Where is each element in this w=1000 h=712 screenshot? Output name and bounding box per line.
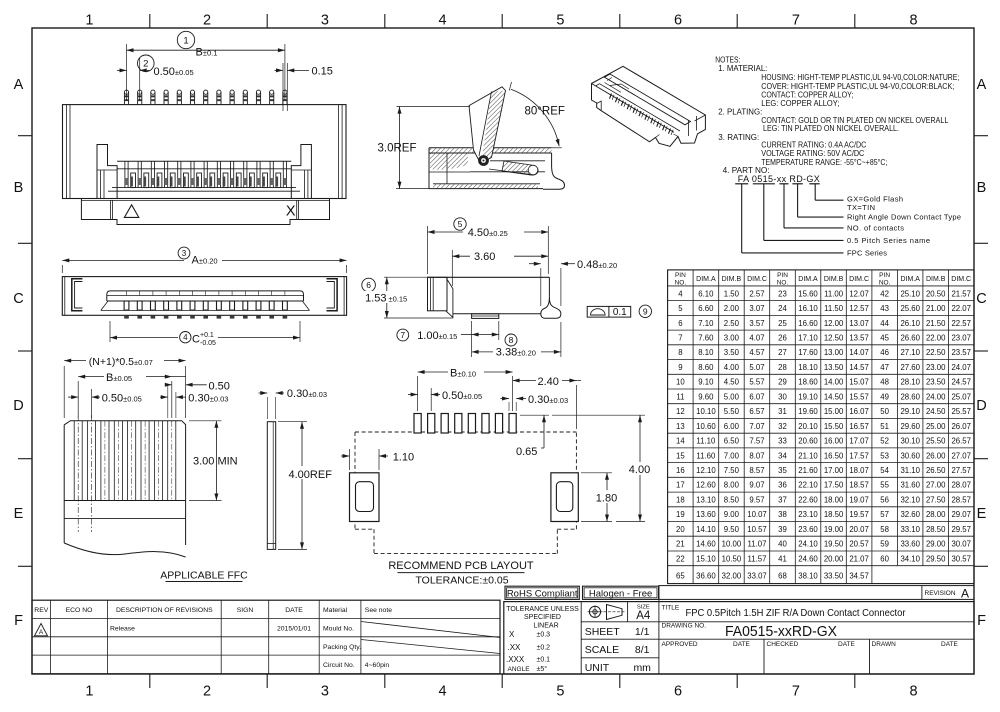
svg-text:3.00 MIN: 3.00 MIN (193, 455, 238, 467)
Halogen-Free box (583, 586, 659, 600)
svg-text:21.10: 21.10 (798, 451, 818, 460)
RECOMMEND PCB LAYOUT caption (388, 560, 534, 586)
svg-text:7: 7 (400, 330, 405, 340)
svg-text:1/1: 1/1 (635, 626, 650, 638)
front view contact comb (108, 161, 300, 191)
PCB dimension 0.50±0.05 pad pitch (408, 388, 482, 411)
svg-text:6.07: 6.07 (749, 392, 764, 401)
svg-text:0.50±0.05: 0.50±0.05 (442, 390, 482, 402)
svg-text:6: 6 (674, 684, 682, 700)
svg-text:28.60: 28.60 (900, 392, 920, 401)
svg-text:34.57: 34.57 (849, 571, 869, 580)
notes text block (715, 56, 959, 175)
svg-text:36.60: 36.60 (696, 571, 716, 580)
svg-text:23.57: 23.57 (951, 348, 971, 357)
svg-text:13.50: 13.50 (824, 363, 844, 372)
svg-text:19.60: 19.60 (798, 407, 818, 416)
svg-text:0.30±0.03: 0.30±0.03 (287, 388, 327, 400)
80 degree reference arc and label (509, 82, 565, 148)
svg-text:25.10: 25.10 (900, 289, 920, 298)
svg-text:0.50±0.05: 0.50±0.05 (102, 392, 142, 404)
front view bottom tray cover (81, 199, 329, 225)
svg-text:22.07: 22.07 (951, 304, 971, 313)
svg-text:15.50: 15.50 (824, 422, 844, 431)
svg-text:9.60: 9.60 (698, 392, 714, 401)
svg-text:68: 68 (778, 571, 787, 580)
svg-text:3.57: 3.57 (749, 319, 764, 328)
side profile view solder leg foot (541, 297, 561, 319)
svg-text:33.60: 33.60 (900, 540, 920, 549)
svg-text:1: 1 (85, 13, 93, 29)
FFC front view outline (64, 421, 185, 557)
svg-text:REVISION: REVISION (925, 590, 956, 597)
svg-text:4: 4 (439, 684, 447, 700)
svg-text:3.00: 3.00 (724, 334, 740, 343)
svg-text:46: 46 (880, 348, 889, 357)
front view polarity triangle mark (124, 205, 138, 218)
svg-text:8: 8 (910, 13, 918, 29)
svg-text:20.07: 20.07 (849, 525, 869, 534)
svg-text:22.10: 22.10 (798, 481, 818, 490)
svg-text:53: 53 (880, 451, 889, 460)
svg-text:27: 27 (778, 348, 787, 357)
svg-text:Release: Release (110, 626, 135, 633)
svg-text:2.40: 2.40 (538, 376, 559, 388)
svg-text:2: 2 (143, 59, 148, 70)
svg-text:12.57: 12.57 (849, 304, 869, 313)
svg-text:23.07: 23.07 (951, 334, 971, 343)
tolerance notes text (506, 606, 579, 673)
svg-text:±0.2: ±0.2 (537, 645, 551, 652)
APPLICABLE FFC caption (160, 569, 248, 581)
svg-text:20.00: 20.00 (824, 554, 844, 563)
svg-text:17.60: 17.60 (798, 348, 818, 357)
svg-text:9.10: 9.10 (698, 378, 714, 387)
svg-text:58: 58 (880, 525, 889, 534)
svg-text:9.50: 9.50 (724, 525, 740, 534)
svg-text:F: F (14, 613, 23, 629)
svg-text:B±0.1: B±0.1 (196, 47, 218, 59)
PCB dimension 1.10 anchor pad width (341, 449, 414, 470)
svg-text:3.07: 3.07 (749, 304, 764, 313)
svg-text:16.07: 16.07 (849, 407, 869, 416)
svg-text:Circuit No.: Circuit No. (323, 662, 355, 669)
svg-text:C: C (976, 291, 986, 307)
svg-text:GX=Gold Flash: GX=Gold Flash (847, 194, 903, 203)
side profile view body (428, 277, 550, 317)
svg-text:43: 43 (880, 304, 889, 313)
open lever side view body (429, 148, 552, 189)
svg-text:20.50: 20.50 (926, 289, 946, 298)
svg-text:26.60: 26.60 (900, 334, 920, 343)
svg-text:7: 7 (792, 684, 800, 700)
svg-text:±0.15: ±0.15 (389, 295, 408, 304)
svg-text:TOLERANCE UNLESS: TOLERANCE UNLESS (506, 606, 579, 613)
svg-text:24.50: 24.50 (926, 407, 946, 416)
svg-text:3: 3 (321, 13, 329, 29)
top view contact slots row (101, 301, 310, 310)
svg-text:0.1: 0.1 (613, 307, 627, 318)
svg-text:9.57: 9.57 (749, 496, 764, 505)
svg-text:45: 45 (880, 334, 889, 343)
svg-text:21.60: 21.60 (798, 466, 818, 475)
svg-text:HOUSING: HIGHT-TEMP PLASTIC,UL: HOUSING: HIGHT-TEMP PLASTIC,UL 94-V0,COL… (761, 73, 959, 82)
dimension 4.50±0.25 with balloon 5 (428, 218, 549, 274)
svg-text:DIM.C: DIM.C (951, 276, 971, 283)
svg-text:APPROVED: APPROVED (662, 641, 698, 648)
svg-text:29: 29 (778, 378, 787, 387)
svg-text:Mould No.: Mould No. (323, 626, 354, 633)
svg-text:12.00: 12.00 (824, 319, 844, 328)
svg-text:13.57: 13.57 (849, 334, 869, 343)
svg-text:16.00: 16.00 (824, 437, 844, 446)
svg-text:13.07: 13.07 (849, 319, 869, 328)
svg-text:RECOMMEND PCB LAYOUT: RECOMMEND PCB LAYOUT (388, 560, 534, 572)
svg-text:24.60: 24.60 (798, 554, 818, 563)
svg-text:8/1: 8/1 (635, 644, 650, 656)
svg-text:8.07: 8.07 (749, 451, 764, 460)
svg-text:16: 16 (676, 466, 685, 475)
svg-text:23.10: 23.10 (798, 510, 818, 519)
svg-text:17.57: 17.57 (849, 451, 869, 460)
svg-text:1: 1 (85, 684, 93, 700)
svg-text:11: 11 (676, 392, 684, 401)
svg-text:14.60: 14.60 (696, 540, 716, 549)
svg-text:5.50: 5.50 (724, 407, 740, 416)
svg-text:18.10: 18.10 (798, 363, 818, 372)
RoHS Compliant box (505, 586, 579, 600)
svg-text:19.07: 19.07 (849, 496, 869, 505)
PCB layout right anchor pad (551, 473, 578, 522)
svg-text:48: 48 (880, 378, 889, 387)
FFC dimension B±0.05 (78, 370, 185, 418)
svg-text:9: 9 (678, 363, 682, 372)
svg-text:FA0515-xxRD-GX: FA0515-xxRD-GX (725, 623, 837, 640)
svg-text:4: 4 (678, 289, 683, 298)
svg-text:34: 34 (778, 451, 787, 460)
svg-text:See note: See note (365, 607, 392, 614)
FFC conductors stripes (74, 415, 176, 532)
svg-text:X: X (509, 630, 515, 639)
svg-text:2.57: 2.57 (749, 289, 764, 298)
svg-text:PIN: PIN (675, 272, 686, 279)
svg-text:32: 32 (778, 422, 787, 431)
front view right end bracket (291, 145, 311, 199)
svg-text:13.10: 13.10 (696, 496, 716, 505)
svg-text:27.00: 27.00 (926, 481, 946, 490)
svg-text:3.0REF: 3.0REF (378, 142, 417, 154)
svg-text:16.57: 16.57 (849, 422, 869, 431)
dimension 0.50±0.05 pin pitch with balloon 2 (117, 55, 194, 100)
svg-text:UNIT: UNIT (585, 662, 610, 674)
front view housing body (63, 105, 347, 199)
svg-text:23.60: 23.60 (798, 525, 818, 534)
svg-text:3.50: 3.50 (724, 348, 740, 357)
svg-text:49: 49 (880, 392, 889, 401)
svg-text:7.57: 7.57 (749, 437, 764, 446)
FFC dimension 3.00 MIN (189, 421, 238, 501)
svg-text:Halogen - Free: Halogen - Free (589, 589, 652, 600)
svg-text:36: 36 (778, 481, 787, 490)
svg-text:0.5 Pitch Series name: 0.5 Pitch Series name (847, 236, 930, 245)
svg-text:3.38±0.20: 3.38±0.20 (496, 346, 536, 358)
third angle projection symbol (588, 605, 625, 620)
svg-text:11.07: 11.07 (748, 540, 767, 549)
svg-text:28.07: 28.07 (951, 481, 971, 490)
svg-text:LEG: TIN PLATED ON NICKEL OVER: LEG: TIN PLATED ON NICKEL OVERALL. (763, 124, 899, 133)
svg-text:21.57: 21.57 (951, 289, 971, 298)
FFC side dimension 4.00REF (278, 422, 332, 550)
svg-text:+0.1: +0.1 (200, 332, 214, 339)
svg-text:B±0.10: B±0.10 (450, 367, 476, 379)
svg-text:28.10: 28.10 (900, 378, 920, 387)
svg-text:B: B (14, 180, 24, 196)
svg-text:4.00: 4.00 (629, 464, 650, 476)
svg-text:.XX: .XX (508, 643, 522, 652)
svg-text:26.57: 26.57 (951, 437, 971, 446)
svg-text:TOLERANCE:±0.05: TOLERANCE:±0.05 (415, 574, 508, 586)
svg-text:D: D (976, 398, 986, 414)
svg-text:±0.1: ±0.1 (537, 657, 551, 664)
svg-text:26.50: 26.50 (926, 466, 946, 475)
svg-text:NO.: NO. (879, 279, 891, 286)
dimension 1.00±0.15 with balloon 7 (397, 321, 499, 357)
svg-text:PIN: PIN (777, 272, 788, 279)
svg-text:28.57: 28.57 (951, 496, 971, 505)
svg-text:22.50: 22.50 (926, 348, 946, 357)
svg-text:1.50: 1.50 (724, 289, 740, 298)
svg-text:A: A (14, 77, 24, 93)
svg-text:DATE: DATE (941, 641, 959, 648)
svg-text:27.07: 27.07 (951, 451, 971, 460)
svg-text:10.10: 10.10 (696, 407, 716, 416)
svg-text:C: C (192, 334, 200, 346)
svg-text:4.00: 4.00 (724, 363, 740, 372)
svg-text:20: 20 (676, 525, 685, 534)
flatness tolerance callout 0.1 with balloon 9 (587, 305, 651, 318)
svg-text:9: 9 (643, 306, 648, 316)
front view top contact pins (124, 90, 287, 105)
svg-text:18.07: 18.07 (849, 466, 869, 475)
svg-text:1.53: 1.53 (365, 293, 386, 305)
svg-text:7.07: 7.07 (749, 422, 764, 431)
svg-text:LINEAR: LINEAR (533, 622, 558, 629)
see note cell diagonal slashes (361, 622, 500, 654)
svg-text:5: 5 (678, 304, 683, 313)
title and drawing number (662, 605, 907, 640)
svg-text:18.60: 18.60 (798, 378, 818, 387)
svg-text:8.57: 8.57 (749, 466, 764, 475)
svg-text:TEMPERATURE RANGE: -55°C~+85°C: TEMPERATURE RANGE: -55°C~+85°C; (761, 158, 887, 167)
svg-text:15.07: 15.07 (849, 378, 869, 387)
svg-text:(N+1)*0.5±0.07: (N+1)*0.5±0.07 (89, 356, 153, 368)
svg-text:15.10: 15.10 (696, 554, 716, 563)
svg-text:DIM.A: DIM.A (900, 276, 920, 283)
svg-text:30: 30 (778, 392, 787, 401)
svg-text:8.10: 8.10 (698, 348, 714, 357)
front view left end bracket (97, 145, 117, 199)
svg-text:0.30±0.03: 0.30±0.03 (188, 392, 228, 404)
svg-text:mm: mm (633, 662, 651, 674)
svg-text:1.00±0.15: 1.00±0.15 (417, 330, 457, 342)
svg-text:23.50: 23.50 (926, 378, 946, 387)
svg-text:9.00: 9.00 (724, 510, 740, 519)
svg-text:18: 18 (676, 496, 685, 505)
svg-text:±0.3: ±0.3 (537, 632, 551, 639)
svg-text:25.00: 25.00 (926, 422, 946, 431)
svg-text:51: 51 (880, 422, 889, 431)
svg-text:20.57: 20.57 (849, 540, 869, 549)
svg-text:15.60: 15.60 (798, 289, 818, 298)
svg-text:29.50: 29.50 (926, 554, 946, 563)
svg-text:5.07: 5.07 (749, 363, 764, 372)
svg-text:26.10: 26.10 (900, 319, 920, 328)
FFC side dimension 0.30±0.03 thickness (259, 388, 328, 419)
revision history table (32, 600, 500, 674)
svg-text:7.50: 7.50 (724, 466, 740, 475)
svg-text:30.60: 30.60 (900, 451, 920, 460)
size sheet scale unit cells (585, 604, 651, 674)
svg-text:15.00: 15.00 (824, 407, 844, 416)
svg-text:DIM.A: DIM.A (696, 276, 716, 283)
svg-text:26.00: 26.00 (926, 451, 946, 460)
svg-text:27.60: 27.60 (900, 363, 920, 372)
svg-text:A±0.20: A±0.20 (192, 255, 218, 267)
svg-text:0.30±0.03: 0.30±0.03 (528, 394, 568, 406)
svg-text:E: E (14, 506, 24, 522)
svg-text:4.07: 4.07 (749, 334, 764, 343)
svg-text:42: 42 (880, 289, 889, 298)
svg-text:10.07: 10.07 (747, 510, 767, 519)
svg-text:11.10: 11.10 (696, 437, 716, 446)
svg-text:21.07: 21.07 (849, 554, 869, 563)
dimension C with balloon 4 (110, 321, 300, 347)
top view left lock bracket (72, 279, 83, 311)
top view solder tails row (124, 315, 287, 318)
svg-text:33.50: 33.50 (824, 571, 844, 580)
svg-text:23.00: 23.00 (926, 363, 946, 372)
svg-text:ECO NO: ECO NO (66, 607, 93, 614)
svg-text:38.10: 38.10 (798, 571, 818, 580)
svg-text:39: 39 (778, 525, 787, 534)
svg-text:12.60: 12.60 (696, 481, 716, 490)
open lever pivot (478, 155, 489, 166)
svg-text:19: 19 (676, 510, 685, 519)
svg-text:24.57: 24.57 (951, 378, 971, 387)
svg-text:80°REF: 80°REF (525, 106, 565, 118)
svg-text:7.60: 7.60 (698, 334, 714, 343)
svg-text:40: 40 (778, 540, 787, 549)
side profile view standoff boss (472, 314, 499, 319)
svg-text:DIM.C: DIM.C (849, 276, 869, 283)
svg-text:LEG: COPPER ALLOY;: LEG: COPPER ALLOY; (761, 99, 839, 108)
svg-text:19.10: 19.10 (798, 392, 818, 401)
svg-text:1.10: 1.10 (393, 451, 414, 463)
svg-text:35: 35 (778, 466, 787, 475)
svg-text:10.00: 10.00 (722, 540, 742, 549)
svg-text:12: 12 (676, 407, 685, 416)
svg-text:6: 6 (678, 319, 682, 328)
svg-text:6.50: 6.50 (724, 437, 740, 446)
svg-text:0.65: 0.65 (516, 446, 537, 458)
svg-text:6.57: 6.57 (749, 407, 764, 416)
dimension A±0.20 with balloon 3 (62, 247, 346, 273)
dimension B±0.1 with balloon 1 (127, 31, 285, 100)
revision triangle mark A (35, 624, 48, 637)
svg-text:SCALE: SCALE (585, 644, 619, 656)
svg-text:X: X (286, 203, 296, 219)
svg-text:26.07: 26.07 (951, 422, 971, 431)
FFC dimension 0.50±0.05 pitch (68, 389, 142, 418)
svg-text:26: 26 (778, 334, 787, 343)
svg-text:25.07: 25.07 (951, 392, 971, 401)
svg-text:29.10: 29.10 (900, 407, 920, 416)
svg-text:30.10: 30.10 (900, 437, 920, 446)
svg-text:11.60: 11.60 (696, 451, 716, 460)
top view actuator band (107, 291, 304, 301)
dimension 1.53±0.15 with balloon 6 (362, 277, 453, 318)
svg-text:52: 52 (880, 437, 889, 446)
PCB dimension 0.65 (516, 415, 549, 458)
svg-text:11.50: 11.50 (824, 304, 844, 313)
svg-text:60: 60 (880, 554, 889, 563)
svg-text:15: 15 (676, 451, 685, 460)
PCB dimension 4.00 (552, 415, 653, 521)
svg-text:17.10: 17.10 (798, 334, 818, 343)
svg-text:18.00: 18.00 (824, 496, 844, 505)
svg-text:FA 0515-xx RD-GX: FA 0515-xx RD-GX (738, 174, 820, 184)
svg-text:4: 4 (183, 333, 188, 342)
svg-text:12.50: 12.50 (824, 334, 844, 343)
svg-text:24: 24 (778, 304, 787, 313)
svg-text:32.60: 32.60 (900, 510, 920, 519)
front view X mark (286, 203, 296, 219)
svg-text:7.10: 7.10 (698, 319, 714, 328)
open lever side view right solder foot (543, 153, 565, 189)
PCB dimension 2.40 (513, 376, 581, 429)
svg-text:28: 28 (778, 363, 787, 372)
svg-text:31.10: 31.10 (900, 466, 920, 475)
svg-text:33.10: 33.10 (900, 525, 920, 534)
svg-text:7.00: 7.00 (724, 451, 740, 460)
svg-text:25: 25 (778, 319, 787, 328)
svg-text:21.50: 21.50 (926, 319, 946, 328)
svg-text:CHECKED: CHECKED (767, 641, 799, 648)
FFC dimension 0.50 edge margin (165, 380, 230, 392)
svg-text:13: 13 (676, 422, 685, 431)
svg-text:8: 8 (910, 684, 918, 700)
svg-text:DIM.B: DIM.B (824, 276, 844, 283)
svg-text:27.50: 27.50 (926, 496, 946, 505)
svg-text:4.00REF: 4.00REF (289, 469, 333, 481)
dimension 3.38±0.20 with balloon 8 (472, 322, 561, 358)
PCB layout signal pads row (414, 414, 516, 434)
revision strip with REVISION A (659, 586, 974, 601)
PCB dimension 0.30±0.03 pad width (501, 394, 569, 411)
svg-text:TITLE: TITLE (662, 605, 680, 612)
svg-text:DIM.C: DIM.C (747, 276, 767, 283)
svg-text:F: F (977, 613, 986, 629)
svg-text:DIM.A: DIM.A (798, 276, 818, 283)
svg-text:56: 56 (880, 496, 889, 505)
FFC dimension 0.30±0.03 conductor width (160, 385, 228, 418)
svg-text:55: 55 (880, 481, 889, 490)
svg-text:7: 7 (678, 334, 682, 343)
svg-text:2: 2 (203, 684, 211, 700)
svg-text:4~60pin: 4~60pin (365, 662, 390, 669)
approval cells (662, 641, 959, 648)
svg-text:16.50: 16.50 (824, 451, 844, 460)
